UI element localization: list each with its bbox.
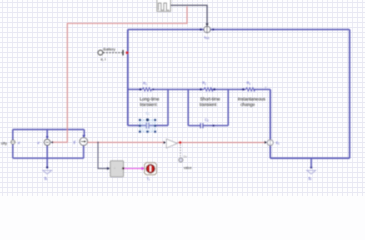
capacitor C1: [146, 123, 148, 129]
red feedback path from pulse: [53, 7, 187, 143]
svg-text:city: city: [1, 141, 7, 146]
junction dots top bus: [200, 28, 202, 30]
svg-text:g′: g′: [73, 140, 76, 144]
svg-text:Instantaneous: Instantaneous: [238, 96, 266, 101]
capacitor C2: [201, 123, 203, 128]
wire bottom-left loop left vertical: [12, 130, 14, 159]
EMF source E1: [267, 140, 273, 146]
svg-text:transient: transient: [140, 102, 158, 107]
terminator T1 octagon: [145, 163, 157, 175]
junction dots middle bus: [139, 88, 141, 90]
wire middle bus with resistors: [128, 88, 270, 90]
svg-text:Battery: Battery: [103, 48, 115, 52]
wire right vertical: [349, 30, 351, 159]
svg-text:Short-time: Short-time: [200, 96, 221, 101]
tiny sensor left branch: [11, 140, 15, 144]
wire u-sensor vertical: [46, 130, 48, 168]
conversion block: [110, 161, 123, 177]
node battery tap: [126, 52, 128, 54]
svg-text:R1: R1: [143, 82, 147, 87]
svg-text:change: change: [240, 102, 255, 107]
svg-text:R2: R2: [202, 81, 206, 86]
svg-text:Long-time: Long-time: [140, 96, 160, 101]
voltmeter U1: [44, 139, 50, 145]
resistor R2: [204, 88, 213, 91]
selection box around C1: [139, 118, 156, 132]
svg-text:u′: u′: [37, 141, 40, 145]
ground left: [46, 166, 48, 168]
current source IG: [204, 26, 210, 32]
wire EMF branch vertical: [269, 89, 271, 158]
signal drop to conversion block: [98, 142, 107, 168]
svg-text:÷: ÷: [114, 167, 116, 171]
svg-text:IG1: IG1: [204, 34, 209, 40]
wire bottom-left loop top: [13, 129, 84, 131]
junction dot C2 right: [213, 125, 215, 127]
dashed probe to value: [179, 144, 181, 157]
pulse source block: [157, 0, 171, 11]
ground right: [310, 166, 312, 168]
signal pulse to IG: [171, 5, 208, 23]
wire bottom right: [270, 157, 349, 159]
wire into g-sensor: [83, 130, 85, 136]
svg-text:Du: Du: [183, 154, 187, 158]
svg-text:transient: transient: [199, 102, 217, 107]
wire loop2: [188, 89, 228, 125]
wire bottom-left loop bottom: [13, 157, 84, 159]
node gain output: [179, 141, 182, 144]
svg-text:e, i: e, i: [101, 57, 106, 61]
battery connector: [98, 50, 103, 55]
resistor R3: [246, 88, 255, 91]
gain triangle: [166, 139, 177, 148]
svg-text:u′: u′: [18, 141, 21, 145]
svg-text:C2: C2: [205, 118, 209, 123]
red wire into EMF: [181, 142, 264, 144]
ammeter G1: [80, 138, 88, 146]
svg-text:value: value: [184, 166, 192, 170]
red wire from g-sensor to gain: [88, 141, 164, 143]
signal magenta to terminator: [124, 168, 141, 170]
svg-text:R3: R3: [247, 81, 251, 86]
svg-text:C1: C1: [146, 111, 150, 116]
wire left vertical: [127, 30, 129, 126]
wire loop1 left/bottom/right: [128, 89, 168, 125]
resistor R1: [142, 88, 151, 91]
wire g-sensor to bottom: [83, 146, 85, 159]
wire top bus: [128, 29, 350, 31]
